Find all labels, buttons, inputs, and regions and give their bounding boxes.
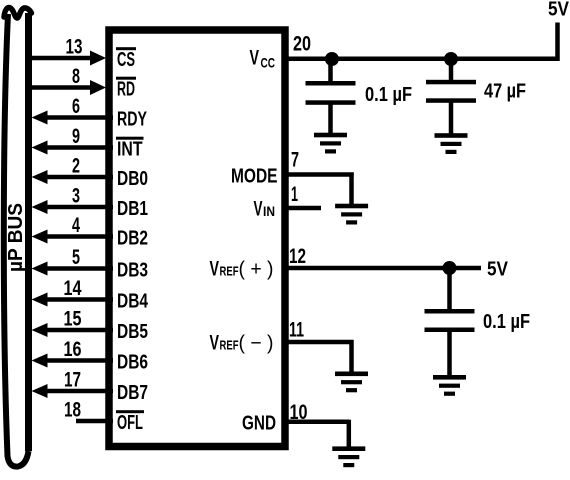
svg-text:GND: GND bbox=[242, 413, 276, 435]
svg-text:µP BUS: µP BUS bbox=[5, 203, 27, 272]
svg-text:3: 3 bbox=[72, 185, 80, 208]
svg-text:15: 15 bbox=[64, 308, 82, 331]
svg-text:V: V bbox=[254, 198, 263, 221]
svg-text:10: 10 bbox=[290, 401, 308, 424]
svg-text:DB1: DB1 bbox=[117, 198, 148, 220]
svg-text:DB7: DB7 bbox=[117, 382, 148, 404]
svg-text:DB2: DB2 bbox=[117, 228, 148, 250]
svg-text:14: 14 bbox=[64, 277, 82, 300]
svg-text:INT: INT bbox=[117, 139, 143, 161]
svg-text:V: V bbox=[210, 258, 220, 281]
svg-text:5: 5 bbox=[72, 246, 80, 269]
svg-text:0.1 µF: 0.1 µF bbox=[365, 84, 412, 106]
svg-text:MODE: MODE bbox=[231, 166, 278, 188]
svg-text:( + ): ( + ) bbox=[239, 259, 274, 281]
svg-text:( − ): ( − ) bbox=[239, 333, 274, 355]
svg-text:12: 12 bbox=[289, 245, 306, 268]
svg-text:REF: REF bbox=[220, 338, 239, 353]
svg-text:DB3: DB3 bbox=[117, 260, 148, 282]
svg-text:CC: CC bbox=[261, 55, 276, 71]
svg-text:11: 11 bbox=[289, 319, 304, 342]
svg-text:18: 18 bbox=[64, 399, 81, 422]
svg-text:IN: IN bbox=[263, 203, 275, 219]
svg-text:DB5: DB5 bbox=[117, 321, 148, 343]
svg-text:16: 16 bbox=[64, 338, 82, 361]
svg-text:RDY: RDY bbox=[117, 109, 147, 131]
svg-text:2: 2 bbox=[72, 155, 80, 178]
svg-text:17: 17 bbox=[64, 369, 81, 392]
svg-text:OFL: OFL bbox=[117, 412, 143, 434]
svg-text:8: 8 bbox=[72, 65, 80, 88]
svg-text:20: 20 bbox=[293, 33, 311, 56]
svg-text:DB6: DB6 bbox=[117, 352, 148, 374]
svg-text:DB0: DB0 bbox=[117, 168, 148, 190]
svg-text:V: V bbox=[210, 332, 220, 355]
svg-text:CS: CS bbox=[117, 49, 135, 71]
svg-text:7: 7 bbox=[291, 149, 299, 172]
svg-text:6: 6 bbox=[72, 95, 80, 118]
svg-text:5V: 5V bbox=[548, 0, 570, 20]
svg-text:V: V bbox=[250, 47, 260, 70]
svg-text:DB4: DB4 bbox=[117, 291, 149, 313]
svg-text:47 µF: 47 µF bbox=[484, 81, 526, 103]
svg-text:RD: RD bbox=[117, 79, 135, 101]
svg-text:4: 4 bbox=[72, 214, 80, 237]
svg-text:9: 9 bbox=[72, 125, 80, 148]
svg-text:5V: 5V bbox=[487, 259, 509, 281]
svg-text:1: 1 bbox=[291, 183, 298, 206]
svg-text:REF: REF bbox=[220, 264, 239, 279]
svg-text:0.1 µF: 0.1 µF bbox=[483, 311, 530, 333]
svg-text:13: 13 bbox=[66, 36, 83, 59]
